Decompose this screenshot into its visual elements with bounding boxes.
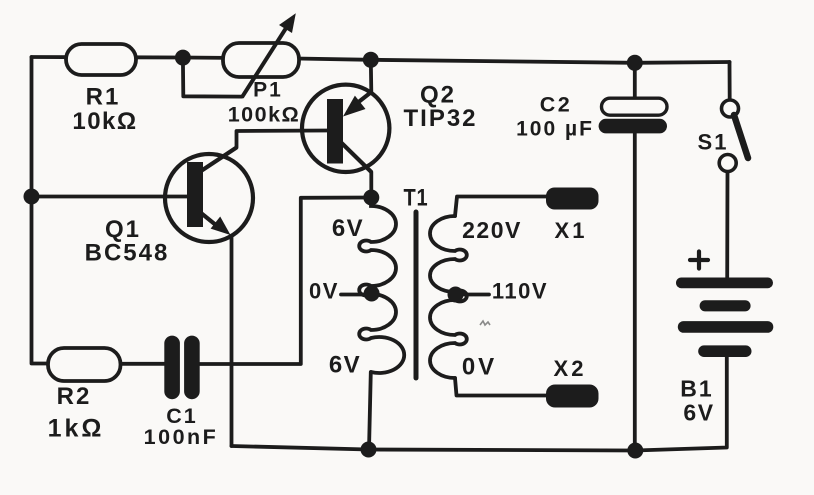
capacitor C2	[599, 98, 667, 133]
wire S1 to battery	[725, 172, 729, 278]
svg-text:B1: B1	[680, 376, 713, 402]
node top rail C2	[627, 55, 643, 71]
T1 core	[414, 212, 419, 378]
svg-text:6V: 6V	[332, 215, 364, 242]
svg-text:T1: T1	[404, 185, 429, 212]
svg-text:X1: X1	[555, 218, 588, 243]
battery B1	[676, 278, 773, 358]
node bottom rail C2	[627, 443, 643, 459]
potentiometer P1	[223, 13, 299, 97]
T1 secondary winding	[430, 216, 467, 378]
svg-text:6V: 6V	[329, 352, 361, 379]
resistor R1	[66, 44, 136, 75]
svg-text:S1: S1	[698, 130, 729, 155]
stray ink smudge	[480, 321, 490, 325]
wire Q1 base	[32, 195, 188, 199]
svg-text:0V: 0V	[309, 279, 339, 304]
node T1 secondary 110V tap	[448, 287, 464, 303]
svg-text:6V: 6V	[683, 400, 714, 426]
capacitor C1	[164, 336, 199, 400]
wire 0V tap label lead	[341, 293, 363, 297]
terminal X2	[546, 385, 599, 408]
svg-text:P1: P1	[253, 79, 283, 102]
wire left rail	[32, 57, 49, 364]
svg-text:R1: R1	[86, 84, 121, 111]
wire 110V tap label lead	[456, 293, 490, 297]
node left rail Q1 base	[24, 189, 40, 205]
svg-text:1kΩ: 1kΩ	[48, 415, 105, 443]
svg-text:0V: 0V	[462, 354, 497, 381]
svg-text:R2: R2	[57, 383, 92, 410]
svg-text:TIP32: TIP32	[403, 105, 477, 132]
transistor Q2	[302, 85, 389, 172]
switch S1	[719, 100, 748, 172]
wire T1 primary bottom	[369, 372, 371, 450]
node T1 primary 0V tap	[364, 286, 380, 302]
wire T1 secondary bottom to X2	[455, 378, 547, 396]
wire Q1 collector to Q2 base	[237, 131, 328, 148]
node top rail Q2 emitter	[363, 52, 379, 68]
battery plus sign	[690, 252, 708, 269]
T1 primary winding	[359, 198, 404, 374]
wire Q2 emitter top	[369, 60, 373, 92]
svg-text:X2: X2	[554, 356, 587, 381]
wire P1 wiper	[183, 58, 242, 97]
svg-text:10kΩ: 10kΩ	[72, 108, 137, 135]
resistor R2	[48, 348, 121, 381]
wire top rail	[32, 57, 730, 63]
wire bottom rail	[232, 357, 727, 451]
wire Q2 collector to T1	[369, 172, 373, 198]
wire Q1 emitter down	[230, 236, 234, 446]
wire C1 right to riser	[200, 198, 371, 365]
svg-text:110V: 110V	[492, 279, 548, 304]
transformer T1	[359, 198, 467, 379]
wire R2 to C1	[121, 362, 165, 366]
svg-text:220V: 220V	[462, 217, 522, 243]
svg-text:100kΩ: 100kΩ	[228, 103, 301, 127]
node bottom rail T1	[361, 442, 377, 458]
wire C2 top stem	[633, 63, 637, 99]
wire T1 secondary top to X1	[455, 197, 547, 217]
node Q2 collector T1	[363, 190, 379, 206]
svg-text:100 µF: 100 µF	[516, 118, 594, 141]
wire C2 bottom stem	[633, 133, 637, 451]
wire S1 top feed	[728, 62, 732, 100]
svg-text:100nF: 100nF	[144, 425, 219, 449]
node R1-P1 junction	[175, 50, 191, 66]
terminal X1	[546, 188, 599, 210]
svg-text:C2: C2	[540, 93, 572, 117]
transistor Q1	[165, 148, 253, 243]
svg-text:BC548: BC548	[85, 240, 170, 267]
